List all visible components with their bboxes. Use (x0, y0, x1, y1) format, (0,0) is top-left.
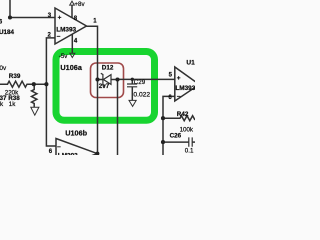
red highlight box around D12 (91, 63, 124, 98)
svg-text:R42: R42 (177, 111, 189, 118)
node: C26 junction (161, 140, 165, 144)
wire: U106a output pin1 down to D12 and U106b pin7 (87, 26, 98, 153)
wire: pin2 of U106a down to node B (46, 38, 56, 146)
wire: pin3 input of U106a (10, 17, 55, 19)
wire pin8 to +8v (71, 5, 73, 18)
svg-text:LM393: LM393 (56, 26, 76, 33)
node: R39/R38 junction (32, 82, 36, 86)
op-amp U106b (clipped at bottom) (56, 139, 97, 170)
wire: input drop from top edge (9, 0, 11, 18)
svg-text:−: − (57, 144, 61, 151)
svg-text:C26: C26 (170, 133, 182, 140)
wire: pin6 of U107a down to bottom (163, 96, 175, 155)
resistor R38 vertical (32, 84, 37, 107)
svg-text:2v7: 2v7 (99, 83, 110, 90)
svg-text:+: + (58, 14, 62, 21)
svg-text:100k: 100k (180, 126, 194, 133)
zener cathode bar (101, 73, 105, 85)
svg-text:0v: 0v (0, 65, 7, 72)
svg-text:U184: U184 (0, 29, 15, 36)
op-amp U107a (clipped at right) (175, 67, 200, 101)
node: input junction (8, 15, 12, 19)
node: D12 right (115, 77, 119, 81)
svg-text:+: + (177, 75, 181, 82)
wire: node D down to bottom edge (117, 80, 119, 156)
svg-text:U106a: U106a (60, 63, 82, 72)
svg-text:−: − (57, 34, 61, 41)
svg-text:-5v: -5v (59, 53, 69, 60)
zener triangle (103, 75, 111, 85)
svg-text:0.1: 0.1 (185, 147, 194, 154)
svg-text:D12: D12 (102, 64, 114, 71)
svg-text:LM393: LM393 (58, 152, 78, 155)
svg-text:0.022: 0.022 (133, 92, 150, 99)
green highlight box (annotation) (56, 52, 155, 121)
node: pin2 feedback junction (44, 82, 48, 86)
op-amp U106a (55, 8, 87, 44)
zener diode D12 wires (98, 79, 118, 81)
svg-text:1k: 1k (9, 101, 16, 108)
svg-text:R39: R39 (9, 73, 21, 80)
svg-text:LM393: LM393 (175, 85, 195, 92)
wire + capacitor C26 (163, 141, 189, 143)
svg-text:U106b: U106b (65, 128, 87, 137)
svg-text:−: − (177, 93, 181, 100)
ground below C29 (129, 100, 136, 106)
svg-text:+8v: +8v (74, 1, 85, 8)
power symbol +8v (70, 1, 75, 5)
wire + resistor R39 (0, 81, 46, 87)
power symbol -5v (70, 53, 75, 57)
ground below R38 (31, 107, 39, 115)
wire pin4 to -5v (71, 34, 73, 53)
svg-text:C29: C29 (134, 79, 146, 86)
node: D12 left (95, 77, 99, 81)
node: C29 top (131, 78, 134, 81)
capacitor C29 (131, 79, 133, 84)
node: U106b output (95, 152, 99, 156)
wire + resistor R42 (163, 116, 195, 121)
svg-text:U107a: U107a (186, 59, 195, 66)
node: R42 junction (161, 116, 165, 120)
wire: D12 right to C29 and pin5 of U107a (118, 78, 175, 80)
